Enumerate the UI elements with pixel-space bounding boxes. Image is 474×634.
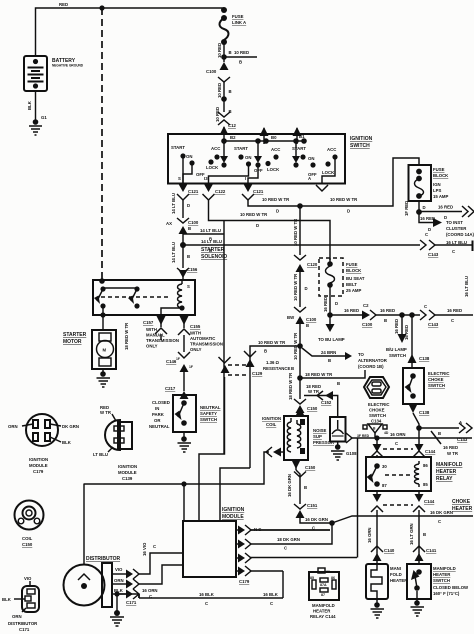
wire to BU lamp (318, 315, 345, 342)
connector C138 top (408, 354, 430, 368)
solenoid contact left (94, 286, 106, 315)
svg-text:D: D (256, 223, 259, 228)
svg-text:RELAY: RELAY (436, 476, 453, 482)
svg-text:16 ORN: 16 ORN (390, 432, 406, 437)
connector C143 pair (420, 240, 435, 250)
svg-text:C141: C141 (426, 548, 437, 553)
svg-text:85: 85 (423, 482, 428, 487)
svg-text:14 LT BLU: 14 LT BLU (171, 242, 176, 263)
wire 16 BLK distributor run (139, 597, 283, 599)
svg-text:B: B (188, 226, 191, 231)
svg-text:ORN: ORN (12, 614, 22, 619)
svg-text:24 BRN: 24 BRN (321, 350, 336, 355)
svg-text:CHOKE: CHOKE (428, 377, 444, 382)
svg-text:C152: C152 (321, 400, 332, 405)
wire triangle to relay 30 (374, 433, 376, 438)
connector C144 coil side (413, 428, 425, 457)
svg-text:MOTOR: MOTOR (63, 339, 82, 345)
svg-text:18 RED W TR: 18 RED W TR (305, 372, 333, 377)
svg-text:10 RED: 10 RED (217, 83, 222, 98)
svg-text:SOLENOID: SOLENOID (201, 254, 228, 260)
svg-text:C: C (149, 594, 152, 599)
svg-text:G1: G1 (41, 115, 47, 120)
svg-text:G108: G108 (346, 451, 357, 456)
wire I3 drop vertical (223, 221, 225, 455)
wire 18 RED W TR to choke area (300, 370, 365, 378)
distributor VIO lead (112, 542, 183, 579)
svg-text:CLUSTER: CLUSTER (446, 226, 467, 231)
connector pair coil primary (266, 447, 284, 457)
svg-text:I3: I3 (204, 176, 208, 181)
wire 14 LT BLU upper branch (183, 233, 224, 235)
wire battery to ground (35, 91, 37, 122)
svg-text:SUP: SUP (313, 434, 322, 439)
ground manifold heater switch (411, 591, 425, 616)
svg-text:D: D (335, 301, 338, 306)
svg-text:B: B (229, 89, 232, 94)
node resistance branch (297, 343, 303, 349)
wire module feed loop (250, 523, 332, 544)
svg-text:C121: C121 (188, 189, 199, 194)
svg-text:LINK A: LINK A (232, 20, 246, 25)
node BU lamp switch branch (399, 312, 405, 318)
node BLK ground tap (114, 591, 119, 596)
ignition switch box (168, 134, 345, 184)
svg-text:BELT: BELT (346, 282, 357, 287)
connector C120 pair (294, 255, 318, 280)
wire segment (299, 280, 301, 307)
wire main 10 RED W TR vertical (299, 206, 301, 255)
wire to BU lamp switch (386, 315, 407, 358)
ground starter motor (97, 369, 111, 387)
svg-text:10 RED W TR: 10 RED W TR (262, 197, 290, 202)
svg-text:C121: C121 (253, 189, 264, 194)
svg-text:I: I (245, 176, 246, 181)
svg-text:16 ORN: 16 ORN (142, 588, 158, 593)
svg-text:MANI: MANI (390, 566, 401, 571)
svg-text:16 RED: 16 RED (344, 308, 359, 313)
svg-text:TRANSMISSION: TRANSMISSION (146, 338, 179, 343)
svg-text:S: S (187, 284, 190, 289)
connector C140 (371, 546, 395, 564)
svg-text:C143: C143 (428, 252, 439, 257)
svg-text:160° F (71°C): 160° F (71°C) (433, 591, 460, 596)
svg-text:B: B (239, 60, 242, 65)
svg-text:ON: ON (186, 154, 192, 159)
battery (24, 56, 84, 91)
solenoid dashed actuator line (101, 296, 168, 298)
svg-text:STARTER: STARTER (63, 332, 87, 338)
wire 10 RED W TR upper (I terminal run to fuse block) (248, 158, 419, 206)
svg-text:10 RED: 10 RED (217, 43, 222, 58)
svg-text:ELECTRIC: ELECTRIC (428, 371, 450, 376)
svg-text:IGN: IGN (433, 182, 441, 187)
svg-text:SWITCH: SWITCH (433, 578, 450, 583)
svg-text:DISTRIBUTOR: DISTRIBUTOR (8, 621, 38, 626)
switch section 3 contacts (292, 141, 338, 177)
connector C151 (294, 503, 332, 531)
svg-text:18 RED W TR: 18 RED W TR (288, 372, 293, 400)
svg-text:C122: C122 (215, 189, 226, 194)
svg-text:10 RED W TR: 10 RED W TR (293, 273, 298, 301)
dashed C144 rail (383, 448, 413, 450)
svg-text:C: C (438, 519, 441, 524)
svg-text:ONLY: ONLY (190, 347, 202, 352)
svg-text:MANIFOLD: MANIFOLD (436, 462, 463, 468)
svg-text:D: D (305, 286, 308, 291)
svg-text:1F: 1F (176, 357, 180, 361)
connector C156 (177, 267, 198, 280)
ignition coil (262, 407, 308, 460)
svg-text:18 DK GRN: 18 DK GRN (277, 537, 300, 542)
svg-text:START: START (234, 146, 248, 151)
svg-text:B: B (384, 318, 387, 323)
svg-text:16 DK GRN: 16 DK GRN (305, 517, 328, 522)
svg-text:CLOSED BELOW: CLOSED BELOW (433, 585, 469, 590)
module output connectors C179 (236, 525, 330, 535)
wire 16 RED to right edge (419, 211, 462, 213)
svg-text:C: C (452, 249, 455, 254)
svg-text:30: 30 (382, 464, 387, 469)
wire module pin4 to 16 BLK (282, 571, 284, 598)
svg-text:C150: C150 (307, 406, 318, 411)
svg-text:C134: C134 (371, 419, 382, 424)
svg-text:RED: RED (59, 2, 68, 7)
svg-text:10 RED W TR: 10 RED W TR (258, 340, 286, 345)
svg-text:1.36 Ω: 1.36 Ω (266, 360, 280, 365)
svg-text:IGNITION: IGNITION (29, 457, 48, 462)
svg-text:LOCK: LOCK (267, 167, 280, 172)
svg-text:C171: C171 (126, 600, 137, 605)
svg-text:B: B (438, 431, 441, 436)
connector C129 resistance wire (219, 351, 295, 468)
wire coil negative down (287, 470, 307, 504)
switch section 2 contacts (209, 141, 281, 184)
svg-text:B: B (306, 323, 309, 328)
connector C152 suppressor feed (304, 391, 338, 417)
svg-text:D: D (423, 205, 426, 210)
svg-text:RESISTANCE: RESISTANCE (263, 366, 291, 371)
svg-text:16 VIO: 16 VIO (142, 542, 147, 556)
wire coil primary run (84, 452, 270, 484)
wire 16 RED to right edge (435, 314, 473, 316)
wire battery to top rail (36, 8, 225, 56)
solenoid pull-in coil (161, 280, 190, 315)
svg-text:86: 86 (423, 463, 428, 468)
connector C217 (165, 386, 189, 399)
ignition module connector C179 (round) (8, 414, 79, 474)
svg-text:C157: C157 (143, 320, 154, 325)
wire fuse block output (418, 201, 420, 212)
svg-text:C155: C155 (190, 324, 201, 329)
svg-text:DISTRIBUTOR: DISTRIBUTOR (86, 556, 120, 562)
svg-text:C171: C171 (19, 627, 30, 632)
connector C144 bottom pairs (371, 491, 383, 560)
svg-text:MANUAL: MANUAL (146, 333, 165, 338)
svg-text:S: S (178, 176, 181, 181)
svg-text:10 RED W TR: 10 RED W TR (293, 218, 298, 246)
solenoid contact middle (103, 286, 140, 308)
svg-text:BLOCK: BLOCK (433, 173, 449, 178)
manifold heater (366, 564, 408, 599)
svg-text:AX: AX (166, 221, 172, 226)
svg-text:AUTOMATIC: AUTOMATIC (190, 336, 215, 341)
svg-text:D: D (347, 209, 350, 214)
svg-text:W TR: W TR (100, 410, 112, 415)
wire 10 RED segment (223, 42, 225, 62)
starter motor (63, 330, 116, 369)
svg-text:VIO: VIO (24, 576, 32, 581)
svg-text:VIO: VIO (115, 567, 123, 572)
wire 10 RED segment (223, 82, 225, 112)
svg-text:C: C (425, 232, 428, 237)
svg-text:TO BU LAMP: TO BU LAMP (318, 337, 345, 342)
wire 16 RED across (330, 314, 362, 316)
svg-text:15 AMP: 15 AMP (433, 194, 448, 199)
svg-text:MODULE: MODULE (29, 463, 48, 468)
wire module to 16 ORN net (357, 438, 359, 558)
wire choke switch to junction (413, 413, 419, 428)
distributor (64, 484, 121, 607)
svg-text:87: 87 (321, 593, 325, 597)
svg-text:HEATER: HEATER (452, 506, 473, 512)
terminal I3 arrow (203, 176, 226, 200)
svg-text:MODULE: MODULE (118, 470, 137, 475)
connector C134 triangle (357, 424, 389, 438)
wire module top feeds (183, 484, 185, 521)
svg-text:NOISE: NOISE (313, 428, 327, 433)
svg-text:NEGATIVE GROUND: NEGATIVE GROUND (52, 64, 84, 68)
connector C155 automatic trans branch (178, 316, 223, 352)
svg-text:FOLD: FOLD (390, 572, 402, 577)
svg-text:FUSE: FUSE (433, 167, 445, 172)
svg-text:16 DK GRN: 16 DK GRN (430, 510, 453, 515)
svg-text:COIL: COIL (266, 422, 277, 427)
node BU lamp branch (327, 312, 333, 318)
svg-text:B: B (337, 381, 340, 386)
svg-text:B: B (264, 349, 267, 354)
fuse block IGN LPS (409, 165, 450, 201)
svg-text:1F RED: 1F RED (404, 201, 409, 216)
svg-text:16 RED: 16 RED (420, 216, 435, 221)
wire S terminal down (182, 200, 184, 218)
connector C12 pair (218, 112, 236, 128)
electric choke switch (contacts) (403, 368, 450, 404)
svg-text:18 RED W TR: 18 RED W TR (124, 322, 129, 350)
svg-text:16 RED: 16 RED (394, 319, 399, 334)
node choke feed branch (409, 312, 415, 318)
svg-text:B2: B2 (230, 135, 236, 140)
svg-text:FUSE: FUSE (346, 262, 358, 267)
svg-text:HEATER: HEATER (313, 609, 331, 614)
svg-text:LPS: LPS (433, 188, 441, 193)
relay pinout view C144 (309, 568, 339, 619)
svg-text:C: C (270, 601, 273, 606)
svg-text:16 DK GRN: 16 DK GRN (287, 474, 292, 497)
svg-text:TO INST: TO INST (446, 220, 463, 225)
svg-text:DK GRN: DK GRN (62, 424, 79, 429)
svg-text:TRANSMISSION: TRANSMISSION (190, 342, 223, 347)
connector C100 AX pair (166, 218, 199, 244)
svg-text:MANIFOLD: MANIFOLD (433, 566, 456, 571)
svg-text:W TR: W TR (447, 451, 459, 456)
node B0 (255, 138, 261, 144)
svg-text:C: C (205, 601, 208, 606)
svg-text:C: C (153, 544, 156, 549)
svg-text:C139: C139 (122, 476, 133, 481)
node I-run / main vertical (297, 203, 303, 209)
svg-text:ORN: ORN (114, 578, 124, 583)
svg-text:10 RED W TR: 10 RED W TR (240, 212, 268, 217)
node (221, 96, 227, 102)
svg-text:RELAY C144: RELAY C144 (310, 614, 336, 619)
svg-text:B: B (229, 50, 232, 55)
svg-text:IGNITION: IGNITION (350, 136, 373, 142)
svg-text:30: 30 (326, 570, 330, 574)
neutral safety switch (149, 395, 221, 432)
manifold heater switch (407, 564, 469, 599)
svg-text:ACC: ACC (271, 147, 280, 152)
svg-text:ORN: ORN (8, 424, 18, 429)
svg-text:10 RED W TR: 10 RED W TR (330, 197, 358, 202)
ignition module connector C139 (D shape) (93, 405, 137, 481)
distributor connector C171 (2, 576, 39, 632)
svg-text:OR: OR (154, 418, 161, 423)
svg-text:C143: C143 (428, 322, 439, 327)
wire segment to coil branch (299, 330, 301, 378)
wire BLK to 16 BLK run (138, 594, 140, 598)
svg-text:C150: C150 (22, 542, 33, 547)
node fuse output (416, 209, 422, 215)
svg-text:START: START (292, 146, 306, 151)
connector C2 C100 pair (362, 303, 376, 327)
svg-text:C138: C138 (419, 356, 430, 361)
wire 16 RED continue (376, 314, 420, 316)
wire 10 RED stub branch (224, 56, 257, 58)
svg-text:14 LT BLU: 14 LT BLU (201, 239, 222, 244)
wire 14/16 LT BLU long run to C143 (183, 244, 420, 246)
svg-text:MANIFOLD: MANIFOLD (312, 603, 335, 608)
node B2 (221, 138, 227, 144)
connector pair right edge (462, 206, 474, 217)
node battery feed entry (99, 278, 105, 284)
svg-text:ON: ON (245, 155, 251, 160)
svg-text:HEATER: HEATER (433, 572, 451, 577)
svg-text:ACC: ACC (327, 147, 336, 152)
svg-text:PRESSOR: PRESSOR (313, 440, 335, 445)
manifold heater relay box (366, 457, 463, 491)
svg-text:LOCK: LOCK (206, 165, 219, 170)
svg-text:CLOSED: CLOSED (152, 400, 170, 405)
connector C150 coil feed (294, 378, 318, 416)
fusible link A (220, 14, 247, 45)
terminal S arrow (177, 176, 199, 200)
svg-text:SWITCH: SWITCH (389, 353, 406, 358)
node battery/dash junction (99, 5, 104, 10)
svg-text:BLK: BLK (27, 100, 32, 110)
svg-text:B: B (291, 366, 294, 371)
svg-text:IGNITION: IGNITION (222, 507, 245, 513)
svg-text:A: A (308, 176, 311, 181)
svg-text:16 BLK: 16 BLK (263, 592, 279, 597)
svg-text:C100: C100 (362, 322, 373, 327)
svg-text:B: B (187, 254, 190, 259)
wire 16 ORN across (352, 437, 472, 439)
svg-text:SWITCH: SWITCH (350, 143, 370, 149)
svg-text:SWITCH: SWITCH (200, 417, 217, 422)
connector C100 pair on main feed (206, 62, 230, 82)
svg-text:C: C (451, 318, 454, 323)
svg-text:COIL: COIL (22, 536, 33, 541)
wire solenoid to starter motor (100, 312, 105, 317)
svg-text:16 RED: 16 RED (323, 297, 328, 312)
wire dashed battery feed to solenoid (101, 8, 103, 280)
svg-text:16 LT BLU: 16 LT BLU (446, 240, 467, 245)
svg-text:16 LT GRN: 16 LT GRN (409, 523, 414, 545)
connector arrow B2 into switch (220, 126, 229, 144)
svg-text:85: 85 (310, 576, 314, 580)
svg-text:FUSE: FUSE (232, 14, 244, 19)
svg-text:D: D (187, 203, 190, 208)
svg-text:C12: C12 (228, 123, 236, 128)
svg-text:SAFETY: SAFETY (200, 411, 217, 416)
svg-text:CHOKE: CHOKE (369, 408, 385, 413)
svg-text:B1: B1 (299, 134, 305, 139)
connector C141 (413, 546, 437, 564)
svg-text:M: M (103, 348, 107, 353)
distributor BLK lead (112, 588, 139, 605)
connector arrow B1 (293, 127, 302, 144)
node 18 RED W TR branch (297, 375, 303, 381)
svg-text:BLOCK: BLOCK (346, 268, 362, 273)
svg-text:BLK: BLK (62, 440, 72, 445)
svg-text:87A: 87A (320, 583, 327, 587)
svg-text:D: D (428, 227, 431, 232)
svg-text:NEUTRAL: NEUTRAL (200, 405, 221, 410)
svg-text:ON: ON (308, 156, 314, 161)
svg-text:C179: C179 (33, 469, 44, 474)
svg-text:C179: C179 (239, 579, 250, 584)
connector C100 BW pair (287, 307, 317, 330)
wire 10 RED W TR lower (I3 run to BU fuse) (209, 200, 331, 260)
svg-text:ELECTRIC: ELECTRIC (368, 402, 390, 407)
svg-text:SWITCH: SWITCH (428, 383, 445, 388)
svg-text:16 BLK: 16 BLK (199, 592, 215, 597)
svg-text:BLK: BLK (2, 597, 12, 602)
svg-text:16 LT BLU: 16 LT BLU (464, 276, 469, 297)
svg-text:16 RED: 16 RED (447, 308, 462, 313)
svg-text:ACC: ACC (211, 146, 220, 151)
wire C129 runs to module (199, 377, 225, 521)
ground G1 (29, 115, 47, 135)
svg-text:10 RED: 10 RED (234, 50, 249, 55)
connector C150 coil bottom (292, 460, 316, 470)
svg-text:16 RED: 16 RED (404, 325, 409, 340)
wire 16 RED W TR to right edge (419, 427, 459, 429)
svg-text:C120: C120 (307, 262, 318, 267)
node B1 (293, 138, 299, 144)
svg-text:N C: N C (254, 527, 261, 532)
svg-text:C140: C140 (384, 548, 395, 553)
svg-text:B0: B0 (271, 135, 277, 140)
svg-text:IN: IN (155, 406, 159, 411)
svg-text:ALTERNATOR: ALTERNATOR (358, 358, 388, 363)
svg-text:B: B (304, 485, 307, 490)
svg-text:C151: C151 (307, 503, 318, 508)
svg-text:1F: 1F (189, 365, 193, 369)
svg-text:16 ORN: 16 ORN (367, 527, 372, 543)
svg-text:IGNITION: IGNITION (262, 416, 281, 421)
